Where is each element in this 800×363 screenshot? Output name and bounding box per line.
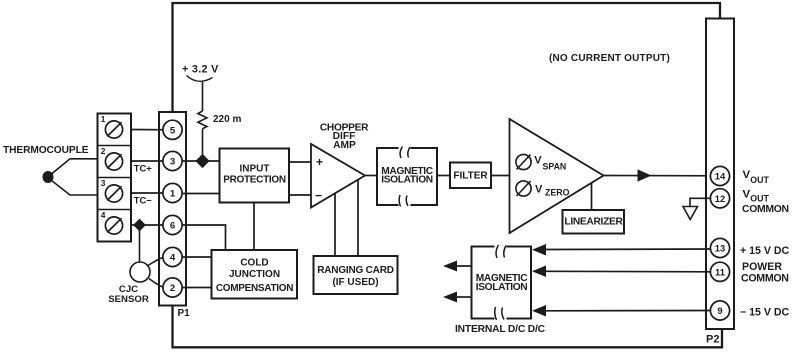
terminal screw 2 (101, 146, 123, 170)
svg-text:1: 1 (170, 189, 176, 200)
dc/dc left output wire lower (456, 296, 472, 298)
CJC sensor drop wire (139, 225, 141, 262)
svg-text:OUT: OUT (750, 175, 769, 185)
svg-text:JUNCTION: JUNCTION (229, 269, 280, 280)
arrowhead into dc/dc (pin9) (532, 305, 546, 317)
wire terminal1 to P1 pin5 (131, 129, 173, 131)
wire P1 pin2 to cold junction compensation (173, 287, 212, 289)
svg-text:3: 3 (101, 178, 106, 188)
svg-text:2: 2 (170, 283, 175, 294)
svg-text:2: 2 (101, 146, 106, 156)
svg-text:INTERNAL D/C D/C: INTERNAL D/C D/C (455, 324, 546, 335)
svg-text:4: 4 (170, 253, 176, 264)
wire linearizer to output amp (591, 183, 593, 210)
svg-text:13: 13 (715, 243, 725, 254)
wire chopper output to magnetic isolation (365, 175, 377, 177)
wire filter to output amp (491, 175, 510, 177)
supply wire (202, 82, 204, 111)
filter box (450, 163, 491, 189)
svg-text:1: 1 (101, 114, 106, 124)
wire input protection to chopper - (289, 194, 311, 196)
svg-text:SPAN: SPAN (543, 162, 567, 172)
op-amp output amplifier (510, 119, 604, 233)
wire P1 pin1 to input protection (173, 193, 220, 195)
svg-text:V: V (534, 155, 542, 167)
magnetic isolation box (signal) (377, 146, 437, 208)
CJC lead to pin4 (148, 257, 164, 266)
svg-text:TC−: TC− (134, 195, 152, 206)
svg-text:COMPENSATION: COMPENSATION (216, 283, 293, 294)
svg-text:12: 12 (715, 193, 725, 204)
wire input protection to chopper + (289, 161, 311, 163)
thermocouple leads (49, 159, 98, 195)
CJC lead to pin2 (149, 279, 164, 288)
connector P1 body (159, 112, 186, 306)
CJC sensor circle (130, 262, 150, 282)
svg-text:TC+: TC+ (134, 163, 152, 174)
svg-text:−: − (315, 189, 322, 203)
svg-text:6: 6 (170, 221, 175, 232)
svg-text:220 m: 220 m (213, 114, 241, 125)
dc/dc left output wire upper (456, 265, 472, 267)
svg-text:LINEARIZER: LINEARIZER (564, 216, 623, 227)
wire TC- terminal3 to P1 pin1 (131, 192, 173, 194)
svg-text:COLD: COLD (240, 257, 268, 268)
terminal block TB (98, 114, 132, 242)
junction dot on pin6 wire (133, 219, 146, 232)
ranging card box (314, 256, 398, 294)
svg-text:+ 3.2 V: + 3.2 V (182, 64, 219, 76)
connector P2 body (706, 19, 734, 330)
svg-text:COMMON: COMMON (742, 204, 789, 215)
svg-text:P1: P1 (178, 308, 191, 319)
wire chopper to ranging card right (357, 180, 359, 256)
svg-text:11: 11 (715, 266, 725, 277)
op-amp chopper diff amp (311, 144, 365, 208)
wire P2 pin11 to dc/dc isolation (545, 270, 711, 273)
svg-text:4: 4 (101, 210, 106, 220)
wire terminal4 to P1 pin6 (131, 224, 173, 226)
P2 pin circles (710, 166, 729, 320)
svg-text:POWER: POWER (742, 261, 782, 273)
svg-text:ZERO: ZERO (545, 188, 570, 198)
svg-text:(NO CURRENT OUTPUT): (NO CURRENT OUTPUT) (549, 53, 670, 64)
svg-text:INPUT: INPUT (240, 164, 270, 175)
wire chopper to ranging card left (334, 193, 336, 256)
svg-text:9: 9 (717, 305, 722, 316)
input protection box (220, 149, 290, 203)
wire P2 pin9 to dc/dc isolation (545, 310, 711, 312)
svg-text:SENSOR: SENSOR (108, 294, 149, 305)
svg-text:ISOLATION: ISOLATION (381, 175, 433, 186)
svg-text:OUT: OUT (750, 193, 769, 203)
svg-text:V: V (743, 189, 751, 201)
module enclosure outline (173, 3, 723, 347)
ground symbol at Vout common (683, 198, 711, 219)
svg-text:(IF USED): (IF USED) (332, 277, 378, 288)
wire magnetic isolation to filter (437, 175, 450, 177)
wire output amp to P2 pin14 (604, 175, 721, 177)
linearizer box (563, 210, 625, 234)
P2 pin numbers (715, 171, 726, 317)
wire P1 pin3 to input protection (173, 160, 220, 162)
wire P1 pin4 to cold junction compensation (173, 256, 212, 258)
arrowhead into dc/dc (pin11) (532, 266, 546, 278)
arrowhead left upper (443, 261, 457, 272)
svg-text:V: V (535, 184, 543, 196)
wire resistor to TC+ line (202, 129, 204, 161)
svg-text:5: 5 (170, 125, 176, 136)
P1 pin circles (163, 120, 182, 297)
wire input protection to cold junction compensation (253, 203, 255, 251)
svg-text:ISOLATION: ISOLATION (476, 282, 528, 293)
potentiometer V ZERO (516, 181, 570, 198)
svg-text:P2: P2 (706, 334, 719, 346)
potentiometer V SPAN (516, 154, 566, 171)
magnetic isolation box (power dc/dc) (472, 244, 532, 321)
arrowhead left lower (443, 292, 457, 303)
resistor 220 m (198, 111, 207, 129)
wire P2 pin13 to dc/dc isolation (545, 248, 711, 251)
svg-text:PROTECTION: PROTECTION (223, 174, 286, 185)
svg-text:AMP: AMP (333, 140, 356, 151)
svg-text:FILTER: FILTER (453, 171, 488, 182)
svg-text:THERMOCOUPLE: THERMOCOUPLE (3, 145, 89, 156)
thermocouple bead (43, 171, 54, 183)
arrowhead into dc/dc (pin13) (532, 244, 546, 256)
svg-text:COMMON: COMMON (741, 273, 789, 285)
terminal screw 3 (101, 178, 123, 202)
terminal screw 4 (101, 210, 123, 234)
wire P1 pin6 to cold junction compensation (173, 225, 226, 250)
cold junction compensation box (212, 250, 298, 299)
svg-text:V: V (743, 169, 751, 181)
svg-text:RANGING CARD: RANGING CARD (317, 265, 394, 276)
+3.2V lead hook (187, 76, 213, 82)
svg-text:− 15 V DC: − 15 V DC (740, 307, 790, 319)
svg-text:14: 14 (715, 171, 726, 182)
svg-text:3: 3 (170, 157, 175, 168)
svg-text:+: + (316, 155, 323, 169)
junction dot at resistor/TC+ (195, 154, 209, 168)
svg-text:+ 15 V DC: + 15 V DC (740, 245, 790, 257)
output arrowhead (638, 169, 652, 181)
terminal screw 1 (101, 114, 123, 138)
P1 pin numbers (170, 125, 176, 294)
wire TC+ terminal2 to P1 pin3 (131, 160, 173, 162)
